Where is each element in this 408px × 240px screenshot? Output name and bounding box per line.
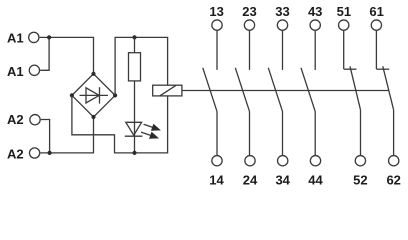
contact 43-44 moving contact [301,68,315,112]
contact 51-52 fixed wire [343,31,345,69]
svg-text:61: 61 [369,4,383,19]
contact 51-52 bottom wire [360,110,362,155]
contact 23-24 terminal circle 24 [245,156,255,166]
bridge node bottom [91,115,95,119]
contact 13-14 fixed wire [216,31,218,70]
LED D2 triangle [126,122,142,135]
svg-text:A1: A1 [7,64,24,79]
contact 61-62 moving contact [383,66,394,110]
svg-text:A2: A2 [7,147,24,162]
svg-text:24: 24 [243,173,258,188]
LED emission arrow 1 [144,124,161,131]
terminal circle A1 (lower) [29,65,39,75]
svg-text:43: 43 [308,4,322,19]
contact 43-44 terminal circle 44 [310,156,320,166]
svg-text:62: 62 [386,173,400,188]
svg-text:14: 14 [209,173,224,188]
mechanical link line [182,90,389,92]
LED emission arrow 2 [141,132,159,139]
contact 13-14 terminal circle 13 [212,20,222,30]
svg-text:52: 52 [353,173,367,188]
contact 13-14 bottom wire [216,111,218,155]
junction node A2 [48,151,52,155]
wire A2 lower rail to bridge bottom [40,117,93,153]
contact 51-52 NC bar [344,68,357,70]
bridge node top [91,72,95,76]
terminal circle A2 (lower) [29,148,39,158]
contact 23-24 bottom wire [249,111,251,155]
contact 51-52 terminal circle 51 [339,20,349,30]
svg-text:A1: A1 [7,31,24,46]
contact 33-34 fixed wire [282,31,284,70]
wire A2 upper to junction [41,120,50,153]
contact 61-62 terminal circle 61 [371,20,381,30]
svg-text:33: 33 [275,4,289,19]
svg-text:44: 44 [308,173,323,188]
junction node resistor tap [132,35,136,39]
wire resistor branch [134,37,136,52]
contact 43-44 fixed wire [314,31,316,70]
diode inside bridge [80,87,109,103]
terminal circle A1 (upper) [29,32,39,42]
wire DC+ rail bridge right to coil top [115,37,168,95]
contact 33-34 terminal circle 34 [278,156,288,166]
contact 33-34 moving contact [268,68,282,112]
svg-text:34: 34 [275,173,290,188]
svg-text:51: 51 [337,4,351,19]
wire resistor to LED to bottom rail [134,81,136,153]
wire DC- rail bridge left to coil bottom [72,95,168,152]
contact 61-62 bottom wire [393,110,395,155]
contact 33-34 bottom wire [282,111,284,155]
contact 43-44 bottom wire [314,111,316,155]
contact 51-52 moving contact [350,66,361,110]
bridge node right [113,93,117,97]
junction node A1 [47,35,51,39]
bridge rectifier diamond [72,74,115,117]
contact 33-34 terminal circle 33 [277,20,287,30]
svg-text:A2: A2 [7,112,24,127]
contact 13-14 terminal circle 14 [212,156,222,166]
relay coil K1 [153,85,182,96]
resistor R1 [129,53,141,81]
contact 23-24 fixed wire [249,31,251,70]
contact 23-24 moving contact [235,68,249,112]
contact 23-24 terminal circle 23 [244,20,254,30]
LED D2 cathode bar [125,135,143,137]
contact 61-62 NC bar [376,68,389,70]
svg-text:23: 23 [242,4,256,19]
contact 13-14 moving contact [203,68,217,112]
svg-text:13: 13 [209,4,223,19]
terminal circle A2 (upper) [30,115,40,125]
wire A1 lower to junction [40,37,49,70]
contact 51-52 terminal circle 52 [355,156,365,166]
bridge node left [70,93,74,97]
junction node LED cathode [132,151,136,155]
contact 61-62 terminal circle 62 [389,156,399,166]
wire A1 upper to bridge top [40,37,94,73]
contact 43-44 terminal circle 43 [310,20,320,30]
contact 61-62 fixed wire [375,31,377,69]
